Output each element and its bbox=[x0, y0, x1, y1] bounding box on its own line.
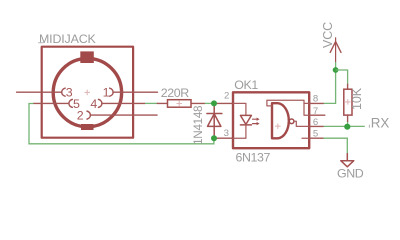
pin 1 wire bbox=[113, 91, 157, 93]
OK1 gnd internal stub bbox=[302, 137, 309, 139]
pin 2 contact arc bbox=[87, 111, 90, 119]
OK1 internal LED anode wire bbox=[233, 103, 246, 115]
jack body box bbox=[42, 47, 133, 138]
OK1 enable wire bbox=[267, 100, 309, 115]
svg-text:GND: GND bbox=[337, 166, 364, 180]
OK1 body box bbox=[233, 92, 309, 148]
jack top notch bbox=[80, 51, 94, 63]
pin 4 wire bbox=[102, 102, 145, 104]
10K bottom pin bbox=[347, 115, 349, 122]
jack bottom notch bbox=[81, 124, 94, 130]
pin 1 contact arc bbox=[110, 88, 113, 96]
ground symbol GND bbox=[341, 154, 354, 167]
net wire: VCC node to 10K top bbox=[336, 70, 348, 84]
VCC arrow shaft bbox=[335, 38, 337, 62]
optocoupler OK1 6N137 bbox=[214, 78, 325, 164]
OK1 pin 7 stub bbox=[309, 114, 325, 116]
diode cathode bar bbox=[207, 113, 222, 115]
junction VCC node bbox=[333, 67, 339, 73]
diode D1 1N4148 bbox=[207, 103, 222, 138]
junction RX node bbox=[344, 124, 350, 130]
10K origin cross bbox=[346, 100, 351, 105]
jack circle bbox=[53, 58, 121, 126]
net wire: pin6 to RX bbox=[324, 125, 365, 127]
OK1 output bubble bbox=[289, 119, 294, 124]
svg-text:8: 8 bbox=[313, 94, 318, 105]
OK1 gate origin cross bbox=[276, 124, 281, 129]
diode triangle bbox=[208, 114, 221, 127]
MIDI jack connector MIDIJACK bbox=[17, 32, 158, 138]
220R body bbox=[168, 100, 192, 108]
svg-text:4: 4 bbox=[90, 97, 97, 111]
OK1 emission arrow 2 bbox=[253, 123, 257, 125]
svg-text:RX: RX bbox=[371, 115, 390, 130]
svg-text:6: 6 bbox=[313, 117, 318, 128]
supply symbol VCC bbox=[330, 38, 341, 62]
origin mark MIDIJACK bbox=[39, 42, 44, 44]
resistor R2 10K bbox=[344, 84, 352, 122]
OK1 pin 2 stub bbox=[214, 102, 233, 104]
pin 3 contact arc bbox=[62, 88, 65, 96]
svg-text:OK1: OK1 bbox=[234, 78, 258, 92]
svg-text:6N137: 6N137 bbox=[236, 150, 271, 164]
OK1 output wire bbox=[294, 121, 309, 126]
pin 2 wire bbox=[91, 114, 158, 116]
220R origin cross bbox=[177, 101, 182, 106]
OK1 emission arrow 1 bbox=[253, 118, 257, 120]
net label RX origin tick bbox=[368, 125, 370, 128]
svg-text:5: 5 bbox=[313, 128, 318, 139]
svg-text:7: 7 bbox=[313, 106, 318, 117]
10K top pin bbox=[347, 84, 349, 89]
pin 5 contact arc bbox=[69, 99, 72, 107]
svg-text:2: 2 bbox=[224, 91, 229, 102]
net wire: pin8 to VCC bbox=[324, 62, 336, 104]
OK1 pin 3 stub bbox=[214, 137, 233, 139]
svg-text:1: 1 bbox=[103, 86, 110, 100]
svg-text:VCC: VCC bbox=[321, 22, 335, 48]
GND triangle bbox=[341, 161, 354, 167]
OK1 internal LED triangle bbox=[240, 115, 251, 124]
diode lead bbox=[213, 103, 215, 138]
svg-text:220R: 220R bbox=[161, 86, 189, 100]
pin 3 wire bbox=[17, 91, 61, 93]
pin 4 contact arc bbox=[99, 99, 102, 107]
svg-text:10K: 10K bbox=[350, 87, 364, 110]
GND lead bbox=[346, 154, 348, 161]
VCC arrow head bbox=[330, 42, 341, 53]
10K body bbox=[344, 89, 352, 115]
junction node A (diode top) bbox=[211, 100, 217, 106]
net wire: 220R to node A bbox=[205, 102, 214, 104]
resistor R1 220R bbox=[157, 86, 205, 107]
OK1 internal LED cathode wire bbox=[233, 125, 246, 138]
OK1 internal LED cathode bar bbox=[240, 124, 251, 126]
jack center cross bbox=[85, 90, 90, 95]
svg-text:2: 2 bbox=[77, 109, 84, 123]
svg-text:3: 3 bbox=[224, 128, 229, 139]
pin 5 wire bbox=[33, 102, 68, 104]
net wire: 10K bottom to RX node bbox=[347, 122, 349, 126]
net wire: jack pin5 to diode anode (around bottom) bbox=[29, 104, 214, 144]
svg-text:3: 3 bbox=[66, 86, 73, 100]
junction node B (diode bottom) bbox=[211, 135, 217, 141]
svg-text:MIDIJACK: MIDIJACK bbox=[39, 32, 97, 46]
net wire: jack pin4 to 220R bbox=[145, 102, 158, 104]
OK1 pin 6 stub bbox=[309, 125, 323, 127]
OK1 gate body bbox=[272, 103, 289, 138]
220R right pin bbox=[191, 102, 205, 104]
OK1 vcc internal stub bbox=[304, 102, 309, 104]
OK1 pin 5 stub bbox=[309, 137, 323, 139]
svg-text:1N4148: 1N4148 bbox=[192, 106, 205, 145]
net wire: pin5 to GND bbox=[323, 138, 347, 153]
OK1 pin 8 stub bbox=[309, 102, 324, 104]
220R left pin bbox=[157, 102, 167, 104]
